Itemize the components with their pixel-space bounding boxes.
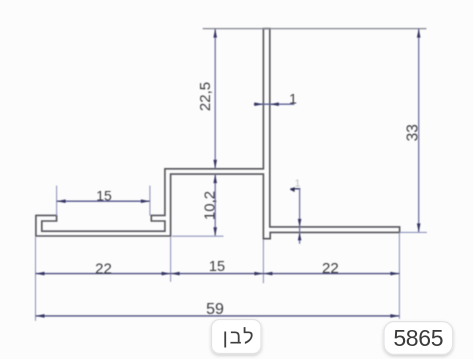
- dimension 10,2 line: [214, 174, 216, 236]
- svg-text:33: 33: [404, 124, 421, 141]
- groove dimension 15 arrow left: [57, 199, 66, 203]
- bottom row extension line x=170.6: [170, 237, 172, 282]
- dimension 1 (flange thickness) top bar: [291, 188, 301, 190]
- svg-text:5865: 5865: [393, 325, 443, 351]
- dimension 33 arrow down: [417, 223, 421, 232]
- svg-text:22: 22: [95, 260, 112, 277]
- svg-text:1: 1: [289, 91, 297, 107]
- chip: profile code 5865: [384, 322, 453, 355]
- chip: colour label (white): [212, 320, 262, 354]
- dimension 33 arrow up: [417, 29, 421, 38]
- groove dimension 15 left extension line: [56, 186, 58, 216]
- dimension 1 (flange) vertical leader: [299, 189, 301, 244]
- svg-text:10,2: 10,2: [201, 191, 218, 220]
- svg-text:22,5: 22,5: [197, 82, 214, 111]
- svg-text:15: 15: [96, 188, 112, 204]
- svg-text:1: 1: [295, 179, 301, 190]
- bottom row bowtie arrows at x=263.4: [254, 272, 272, 276]
- groove dimension 15 line: [57, 200, 150, 202]
- groove dimension 15 arrow right: [141, 199, 150, 203]
- svg-text:22: 22: [322, 260, 339, 277]
- dimension 22,5 line: [214, 29, 216, 169]
- top extension line: [203, 28, 427, 30]
- bottom row arrow at left end: [36, 272, 45, 276]
- bottom row arrow at right end: [390, 272, 399, 276]
- dimension 1 (wall thickness) leader line: [254, 103, 295, 105]
- dimension 1 (flange) arrow up: [298, 232, 302, 240]
- svg-text:15: 15: [209, 259, 225, 275]
- profile outline (aluminium extrusion cross-section): [36, 29, 400, 239]
- dimension 1 (flange) arrow pointing left: [290, 187, 295, 192]
- bottom row extension line x=399.4: [398, 234, 400, 319]
- dimension 59 line: [36, 315, 400, 317]
- dimension 1 (flange) arrow down: [298, 219, 302, 227]
- dimension 1 arrow pointing left: [270, 102, 279, 106]
- dimension 22,5 arrow down: [213, 160, 217, 169]
- bottom dimension row line (22 / 15 / 22): [36, 273, 400, 275]
- svg-text:59: 59: [206, 301, 224, 318]
- bottom row extension line x=35.5: [35, 237, 37, 321]
- groove dimension 15 right extension line: [149, 186, 151, 216]
- dimension 10,2 bottom extension line: [172, 235, 224, 237]
- bottom row extension line x=263.4: [262, 240, 264, 284]
- dimension 1 arrow pointing right: [254, 102, 263, 106]
- dimension 22,5 arrow up: [213, 29, 217, 38]
- dimension 33 line: [418, 29, 420, 233]
- dimension 10,2 arrow up: [213, 174, 217, 183]
- dimension 33 bottom extension line: [400, 231, 427, 233]
- dimension 10,2 arrow down: [213, 227, 217, 236]
- dimension 59 arrow right: [390, 314, 399, 318]
- svg-text:לבן: לבן: [223, 327, 256, 349]
- dimension 59 arrow left: [36, 314, 45, 318]
- bottom row bowtie arrows at x=170.6: [162, 272, 180, 276]
